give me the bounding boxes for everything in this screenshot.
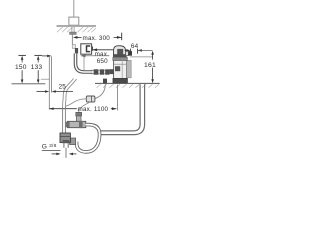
elbow inner dark	[117, 49, 123, 55]
G38 nipple below valve	[64, 143, 68, 148]
dim 133 up arrow	[37, 56, 40, 60]
lower thin supply pipes	[63, 107, 66, 133]
svg-text:161: 161	[144, 62, 156, 69]
cable from power box bottom	[83, 54, 85, 71]
dim max650 upper stub	[91, 46, 93, 50]
dim max300 left arrow	[73, 36, 78, 39]
dim 150 top tick	[18, 54, 26, 56]
spout elbow block	[114, 46, 126, 57]
hose loop	[77, 125, 100, 152]
elbow base strip	[114, 54, 126, 56]
thick supply tube from plug down and right	[76, 53, 93, 72]
extension line A	[48, 56, 50, 109]
left deck hatch	[57, 27, 96, 32]
svg-text:25: 25	[59, 84, 67, 91]
dim max1100 right arrow	[111, 108, 117, 110]
dim max1100 right ext line	[117, 85, 119, 111]
riser line above left faucet	[73, 0, 75, 18]
tee nipple nut	[76, 112, 82, 116]
cable plug into power box left	[75, 48, 78, 53]
dim 133 down arrow	[37, 70, 39, 80]
dim 150 down arrow	[21, 70, 23, 80]
hose nut 2	[100, 69, 104, 74]
left faucet body box	[69, 17, 79, 25]
dim 150 up arrow	[21, 56, 24, 60]
dim G38 right arrow	[69, 153, 73, 156]
sensor cable from left faucet down	[71, 34, 73, 44]
dim 25 left arrow	[37, 91, 46, 93]
dim 133 top tick	[34, 54, 42, 56]
tie line with right arrow to ext lines	[42, 55, 48, 57]
cable from sensor box to plug	[95, 84, 105, 98]
tee left nut	[66, 122, 70, 128]
left faucet shank	[72, 27, 74, 33]
wavy hose bundle down-left	[63, 79, 90, 113]
hose nut 1	[94, 69, 99, 74]
dim 25 right arrow	[52, 90, 56, 93]
svg-text:max. 300: max. 300	[83, 35, 111, 42]
tee horizontal body	[67, 121, 85, 127]
pipe tail below nipple	[65, 148, 67, 158]
svg-text:max.: max.	[95, 51, 109, 58]
svg-text:133: 133	[31, 64, 43, 71]
power box connector socket	[87, 46, 91, 52]
body inner dark square	[115, 66, 120, 71]
svg-text:150: 150	[15, 64, 27, 71]
hose connector into body	[109, 69, 114, 74]
hose nut 3	[105, 69, 109, 74]
valve lower nut	[63, 140, 70, 143]
power supply box	[81, 44, 92, 54]
body base flange	[113, 78, 128, 83]
tee mid nut	[79, 121, 83, 128]
hose end fitting at valve	[70, 138, 76, 145]
angle valve block	[60, 133, 70, 143]
body inner lines	[121, 58, 123, 78]
dim 64 line arrows	[125, 49, 129, 51]
tee top nipple	[76, 112, 81, 121]
right deck hatch	[97, 84, 160, 88]
dim max1100 left arrow	[49, 107, 53, 110]
dim 161 arrows	[151, 51, 154, 55]
left deck line	[57, 25, 97, 26]
datum line under 150 133	[12, 83, 46, 85]
sensor box on deck	[103, 79, 107, 84]
svg-text:max. 1100: max. 1100	[78, 106, 109, 113]
extension line B	[51, 56, 53, 92]
body top reference line right	[130, 56, 153, 58]
left faucet nut	[70, 32, 77, 34]
body right bracket	[127, 60, 132, 77]
cable plug pair	[86, 96, 95, 102]
body top nut	[113, 57, 128, 60]
hose connector rail into faucet body	[91, 70, 114, 74]
right faucet body	[114, 57, 127, 79]
dim 64 tail to 161 line	[138, 49, 153, 51]
dim G38 left arrow	[52, 153, 58, 155]
dim max300 right arrow	[114, 36, 122, 38]
dim max650 lower stub	[81, 54, 86, 57]
supply tube from deck down with elbow left	[100, 84, 145, 134]
svg-text:650: 650	[97, 58, 108, 65]
right deck line	[95, 82, 160, 84]
spout dark tip	[128, 51, 132, 56]
spout tube	[126, 51, 129, 55]
